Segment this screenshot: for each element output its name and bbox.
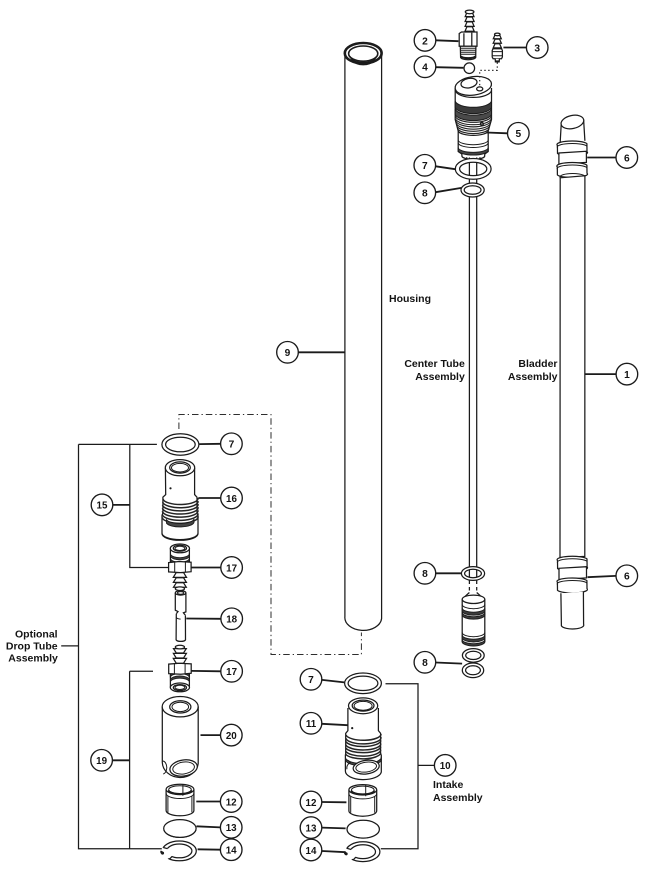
bladder top coupling ring 2 [557, 163, 588, 178]
o-ring 8 (low B) [462, 663, 483, 678]
svg-text:18: 18 [226, 615, 237, 626]
svg-text:8: 8 [422, 658, 428, 669]
item 2 hose barb fitting: barb stem [465, 10, 474, 33]
bladder bottom stub tube [561, 592, 584, 629]
label 11 [300, 713, 322, 735]
leader 12 drop [196, 801, 220, 803]
piston body [462, 595, 485, 646]
svg-text:19: 19 [96, 756, 107, 767]
svg-text:8: 8 [422, 569, 428, 580]
bracket: item 15 sub-assembly [130, 444, 169, 567]
svg-text:17: 17 [226, 563, 237, 574]
svg-text:14: 14 [226, 846, 237, 857]
leader 19 [113, 759, 130, 761]
o-ring 8 (low A) [462, 649, 484, 663]
label 15 [91, 494, 113, 516]
label 13 drop [220, 817, 242, 839]
leader 13 intake [322, 827, 346, 830]
svg-text:3: 3 [534, 43, 540, 54]
svg-text:6: 6 [624, 572, 630, 583]
item 14 intake snap ring [338, 842, 380, 863]
svg-text:6: 6 [624, 153, 630, 164]
label 16 [221, 487, 243, 509]
bladder bottom coupling ring 2 [557, 578, 588, 593]
svg-text:11: 11 [306, 719, 317, 730]
svg-text:12: 12 [226, 797, 237, 808]
leader 3 [503, 47, 526, 49]
item 5 bottom stub [467, 157, 481, 161]
label 2 [414, 30, 436, 52]
housing internal threads [349, 55, 377, 62]
leader 7 drop [199, 443, 220, 445]
label 17 low [221, 661, 243, 683]
item 16 thread band [162, 498, 198, 523]
leader 17 low [191, 670, 220, 672]
item 5 rib lines [455, 117, 491, 134]
bladder bottom coupling ring 1 (item 6) [557, 556, 588, 571]
item 20 foot valve body [162, 697, 198, 779]
label 7 top [414, 155, 436, 177]
item 4 check ball [464, 63, 475, 74]
item 18 drop tube with break [175, 591, 186, 642]
o-ring 7 (upper) [455, 159, 491, 180]
svg-text:8: 8 [422, 189, 428, 200]
svg-text:Intake: Intake [433, 779, 464, 791]
housing tube body (item 9) [345, 54, 382, 631]
label 9 leader [298, 351, 344, 353]
label 14 drop [220, 839, 242, 861]
SECTION: center tube assembly [404, 10, 502, 678]
center tube rod [469, 158, 476, 568]
label 3 [526, 37, 548, 59]
bladder main tube [560, 176, 585, 558]
leader 15 [113, 504, 130, 506]
svg-text:Bladder: Bladder [518, 358, 557, 370]
SECTION: drop tube assembly [6, 415, 362, 862]
leader 11 [322, 724, 348, 725]
label 8 mid [414, 563, 436, 585]
leader 20 [201, 734, 221, 736]
item 12 gland bushing (shared) [166, 784, 194, 816]
label 6 top [616, 147, 638, 169]
bladder bottom coupling body [559, 567, 587, 580]
leader 16 [198, 497, 220, 499]
leader 7 top [436, 166, 456, 169]
bladder top coupling body [559, 151, 587, 164]
item 5 small port [477, 87, 483, 91]
label 12 intake [300, 791, 322, 813]
svg-text:Assembly: Assembly [433, 792, 483, 804]
svg-text:7: 7 [422, 161, 428, 172]
item 5 head top ellipse [454, 74, 493, 97]
item 5 knurl band dark [455, 101, 491, 113]
svg-text:7: 7 [308, 675, 314, 686]
item 17 barb adapter (lower, flipped) [169, 645, 192, 692]
leader 8 top [436, 188, 462, 192]
dash-dot connection outline to housing [179, 415, 362, 655]
svg-text:15: 15 [97, 501, 108, 512]
leader 1 [585, 373, 616, 375]
dotted alignment line from item 3 to head port [480, 63, 498, 87]
item 17 barb adapter (upper) [169, 544, 192, 591]
leader 12 intake [322, 801, 346, 803]
rod hidden-line dashes below mid o-ring [469, 581, 476, 593]
item 5 large port opening [460, 77, 478, 89]
svg-text:Assembly: Assembly [8, 652, 58, 664]
leader 14 drop [198, 848, 221, 850]
SECTION: housing [277, 43, 431, 630]
svg-text:7: 7 [229, 440, 235, 451]
svg-text:Drop Tube: Drop Tube [6, 640, 58, 652]
label 12 drop [220, 791, 242, 813]
leader 6 bottom [588, 576, 616, 577]
label 1 [616, 363, 638, 385]
leader 18 [186, 618, 221, 620]
label 7 drop [221, 433, 243, 455]
item 14 snap ring (shared) [154, 841, 196, 862]
svg-text:Optional: Optional [15, 628, 58, 640]
item 3 small barb fitting [492, 33, 502, 62]
leader 6 top [587, 157, 616, 159]
item 13 seal ring (shared) [164, 820, 196, 838]
housing top rim inner edge [349, 46, 378, 61]
item 5 valve head body [455, 88, 491, 159]
leader 7 intake [322, 680, 344, 683]
piston neck [465, 593, 482, 597]
leader 5 [486, 132, 507, 135]
item 11 intake window [352, 759, 380, 776]
bladder top cap tube [560, 113, 585, 147]
item 20 left notch [163, 761, 167, 774]
svg-text:12: 12 [306, 798, 317, 809]
item 11 thread band [346, 734, 382, 759]
svg-text:10: 10 [440, 761, 451, 772]
o-ring 7 (drop tube) [162, 434, 199, 455]
item 12 intake bushing [349, 785, 377, 817]
item 2 hex body [459, 32, 477, 60]
item 16 outlet adapter [162, 460, 198, 541]
o-ring 8 (mid) [461, 567, 484, 581]
SECTION: intake assembly [338, 673, 483, 862]
label 6 bottom [616, 565, 638, 587]
item 13 intake seal ring [347, 820, 379, 838]
svg-text:14: 14 [306, 846, 317, 857]
svg-text:5: 5 [515, 129, 521, 140]
SECTION: bladder assembly [508, 113, 588, 629]
label 4 [414, 56, 436, 78]
label 18 [221, 608, 243, 630]
label 19 [91, 750, 113, 772]
label 8 top [414, 182, 436, 204]
label 17 up [221, 557, 243, 579]
o-ring 8 (upper) [461, 183, 484, 197]
leader 17 up [191, 567, 220, 569]
svg-text:9: 9 [285, 348, 291, 359]
label 5 [508, 123, 530, 145]
item 5 side hole [480, 122, 483, 125]
leader 4 [436, 66, 464, 69]
label circle 9 [277, 342, 299, 364]
label 10 [434, 755, 456, 777]
item 5 lower rings [458, 141, 488, 148]
bladder top coupling ring 1 (item 6) [557, 141, 588, 156]
svg-text:17: 17 [226, 667, 237, 678]
svg-text:13: 13 [306, 823, 317, 834]
item 20 intake window [169, 758, 199, 778]
svg-text:Center Tube: Center Tube [404, 358, 465, 370]
leader 8 low [436, 663, 462, 664]
bracket: outer (optional drop tube assembly) [79, 444, 162, 848]
item 11 left notch [346, 760, 351, 770]
label 13 intake [300, 817, 322, 839]
Optional Drop Tube Assembly text + leader [61, 645, 78, 647]
svg-text:20: 20 [226, 731, 237, 742]
svg-text:16: 16 [226, 494, 237, 505]
label 8 low [414, 652, 436, 674]
leader 13 drop [197, 826, 221, 827]
item 5 collar lower arc [455, 91, 491, 98]
o-ring 7 (intake) [345, 673, 382, 694]
leader 14 intake [322, 851, 346, 852]
housing top rim outer [345, 43, 382, 63]
svg-text:2: 2 [422, 36, 428, 47]
label 20 [221, 724, 243, 746]
leader 8 mid [436, 572, 461, 574]
label 14 intake [300, 839, 322, 861]
svg-text:1: 1 [624, 370, 630, 381]
item 5 shoulder line [458, 131, 488, 135]
leader 2 [436, 39, 459, 42]
svg-text:13: 13 [226, 823, 237, 834]
item 11 intake body [345, 698, 381, 780]
svg-text:4: 4 [422, 63, 428, 74]
svg-text:Assembly: Assembly [415, 371, 465, 383]
svg-text:Housing: Housing [389, 293, 431, 305]
bracket: item 19 sub-assembly [130, 671, 153, 849]
bracket: item 10 intake assembly [381, 684, 434, 849]
label 7 intake [300, 669, 322, 691]
svg-text:Assembly: Assembly [508, 371, 558, 383]
